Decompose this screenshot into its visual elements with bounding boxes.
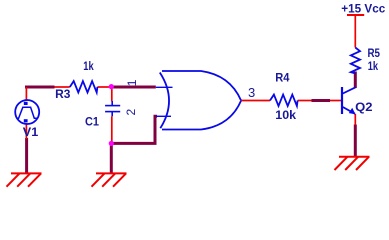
- resistor R5: [351, 48, 360, 74]
- emitter stroke: [343, 107, 355, 114]
- wire node2 to gate pin2: [111, 116, 157, 143]
- svg-text:10k: 10k: [275, 108, 296, 122]
- svg-text:1: 1: [125, 79, 139, 86]
- resistor R3: [70, 81, 98, 92]
- wire R5 to Q2 collector: [354, 72, 357, 89]
- svg-text:V1: V1: [23, 125, 39, 139]
- ground G3 (below Q2 emitter): [335, 157, 370, 170]
- wire node1 to gate pin1: [111, 86, 156, 89]
- pulse source V1: [15, 100, 39, 124]
- ground G1 (below V1): [7, 173, 42, 186]
- V1 terminal marks: [24, 102, 28, 105]
- svg-text:R5: R5: [368, 46, 381, 60]
- base bar: [341, 87, 343, 114]
- pin Q2 emitter: [354, 114, 356, 125]
- svg-text:2: 2: [124, 108, 138, 115]
- gate input pin 2: [156, 115, 171, 117]
- gate top edge: [162, 71, 241, 100]
- wire Q2 emitter to ground: [354, 125, 357, 158]
- pin C1 top: [111, 87, 113, 101]
- pin R3 left: [55, 86, 70, 88]
- svg-text:3: 3: [248, 85, 255, 100]
- pin V1 bottom: [25, 124, 27, 140]
- pin gate output / R4 left: [241, 100, 270, 102]
- junction node 2: [109, 141, 114, 146]
- pin R5 top / Vcc: [354, 15, 356, 48]
- emitter arrow: [349, 108, 356, 115]
- svg-text:1k: 1k: [83, 59, 94, 73]
- pin R3 right: [97, 86, 111, 88]
- transistor Q2: [342, 87, 356, 114]
- wire V1 top to R3: [25, 86, 55, 89]
- wire V1 bottom to ground: [25, 138, 28, 174]
- pin V1 top: [25, 87, 27, 101]
- capacitor C1: [105, 101, 120, 116]
- pin C1 bottom: [111, 116, 113, 143]
- resistor R4: [270, 95, 298, 106]
- svg-text:R4: R4: [275, 70, 289, 84]
- svg-text:R3: R3: [55, 87, 71, 101]
- gate input pin 1: [156, 86, 173, 88]
- svg-text:1k: 1k: [368, 59, 379, 73]
- junction node 1: [109, 84, 114, 89]
- pin Q2 base: [330, 100, 341, 102]
- svg-text:C1: C1: [85, 115, 99, 129]
- svg-text:+15 Vcc: +15 Vcc: [341, 2, 385, 16]
- svg-text:Q2: Q2: [355, 100, 373, 114]
- ground G2 (below node2): [92, 173, 127, 186]
- gate bottom edge: [162, 101, 241, 130]
- gate back arc: [160, 73, 169, 129]
- collector stroke: [343, 87, 356, 93]
- power terminal +15 Vcc: [347, 14, 364, 16]
- pin R4 right: [298, 100, 312, 102]
- or-gate U1: [156, 71, 241, 130]
- wire R4 to Q2 base: [312, 99, 331, 102]
- wire node2 to ground: [110, 143, 113, 174]
